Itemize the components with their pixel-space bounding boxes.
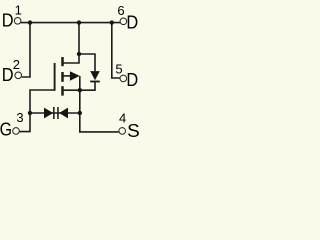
node dot drain diode tee: [77, 52, 81, 56]
pin 2 terminal circle: [15, 72, 22, 79]
svg-text:D: D: [2, 11, 14, 31]
transistor Q1 channel segment drain: [61, 57, 64, 66]
svg-text:G: G: [0, 118, 12, 139]
node dot zener row left: [28, 111, 32, 115]
svg-text:D: D: [126, 12, 138, 32]
node dot top rail drain: [77, 20, 81, 24]
wire gate run from G pin to gate bar: [20, 90, 55, 132]
svg-text:4: 4: [119, 110, 126, 125]
pin 4 terminal circle: [119, 128, 126, 135]
wire zener row G to S: [30, 112, 80, 114]
svg-text:2: 2: [13, 57, 20, 72]
zener Z1 anode triangle: [44, 108, 53, 119]
svg-text:D: D: [126, 70, 138, 90]
diode D1 cathode bar: [90, 81, 100, 83]
pin 3 terminal circle: [13, 128, 20, 135]
transistor Q1 gate bar: [54, 63, 56, 91]
pin 1 terminal circle: [14, 18, 21, 25]
zener Z2 anode triangle: [59, 108, 68, 119]
pin 5 terminal circle: [120, 75, 127, 82]
wire left vertical pin1 to pin2: [22, 23, 30, 77]
wire body diode cathode to source rail: [62, 82, 95, 90]
zener Z1 cathode bar: [53, 107, 55, 119]
wire drain tee to body diode: [79, 54, 95, 71]
svg-text:3: 3: [16, 110, 23, 125]
zener Z2 cathode bar: [57, 107, 59, 119]
node dot top rail right: [110, 20, 114, 24]
wire top drain rail: [20, 22, 120, 24]
transistor Q1 channel segment source: [61, 86, 64, 95]
pin 6 terminal circle: [120, 18, 127, 25]
svg-text:6: 6: [117, 3, 124, 18]
svg-text:S: S: [127, 120, 140, 141]
transistor Q1 body stub: [62, 75, 70, 77]
svg-text:1: 1: [15, 3, 22, 18]
wire source and body down to S pin: [80, 76, 119, 132]
transistor Q1 body arrow: [70, 71, 80, 81]
transistor Q1 channel segment body: [61, 72, 64, 82]
diode D1 body diode triangle: [90, 71, 100, 80]
node dot top rail left: [28, 20, 32, 24]
svg-text:D: D: [2, 65, 14, 85]
wire drain vertical to MOSFET: [62, 23, 79, 63]
node dot zener row right: [78, 111, 82, 115]
svg-text:5: 5: [115, 61, 122, 76]
wire right vertical pin6 to pin5: [112, 23, 120, 78]
node dot source rail: [78, 88, 82, 92]
